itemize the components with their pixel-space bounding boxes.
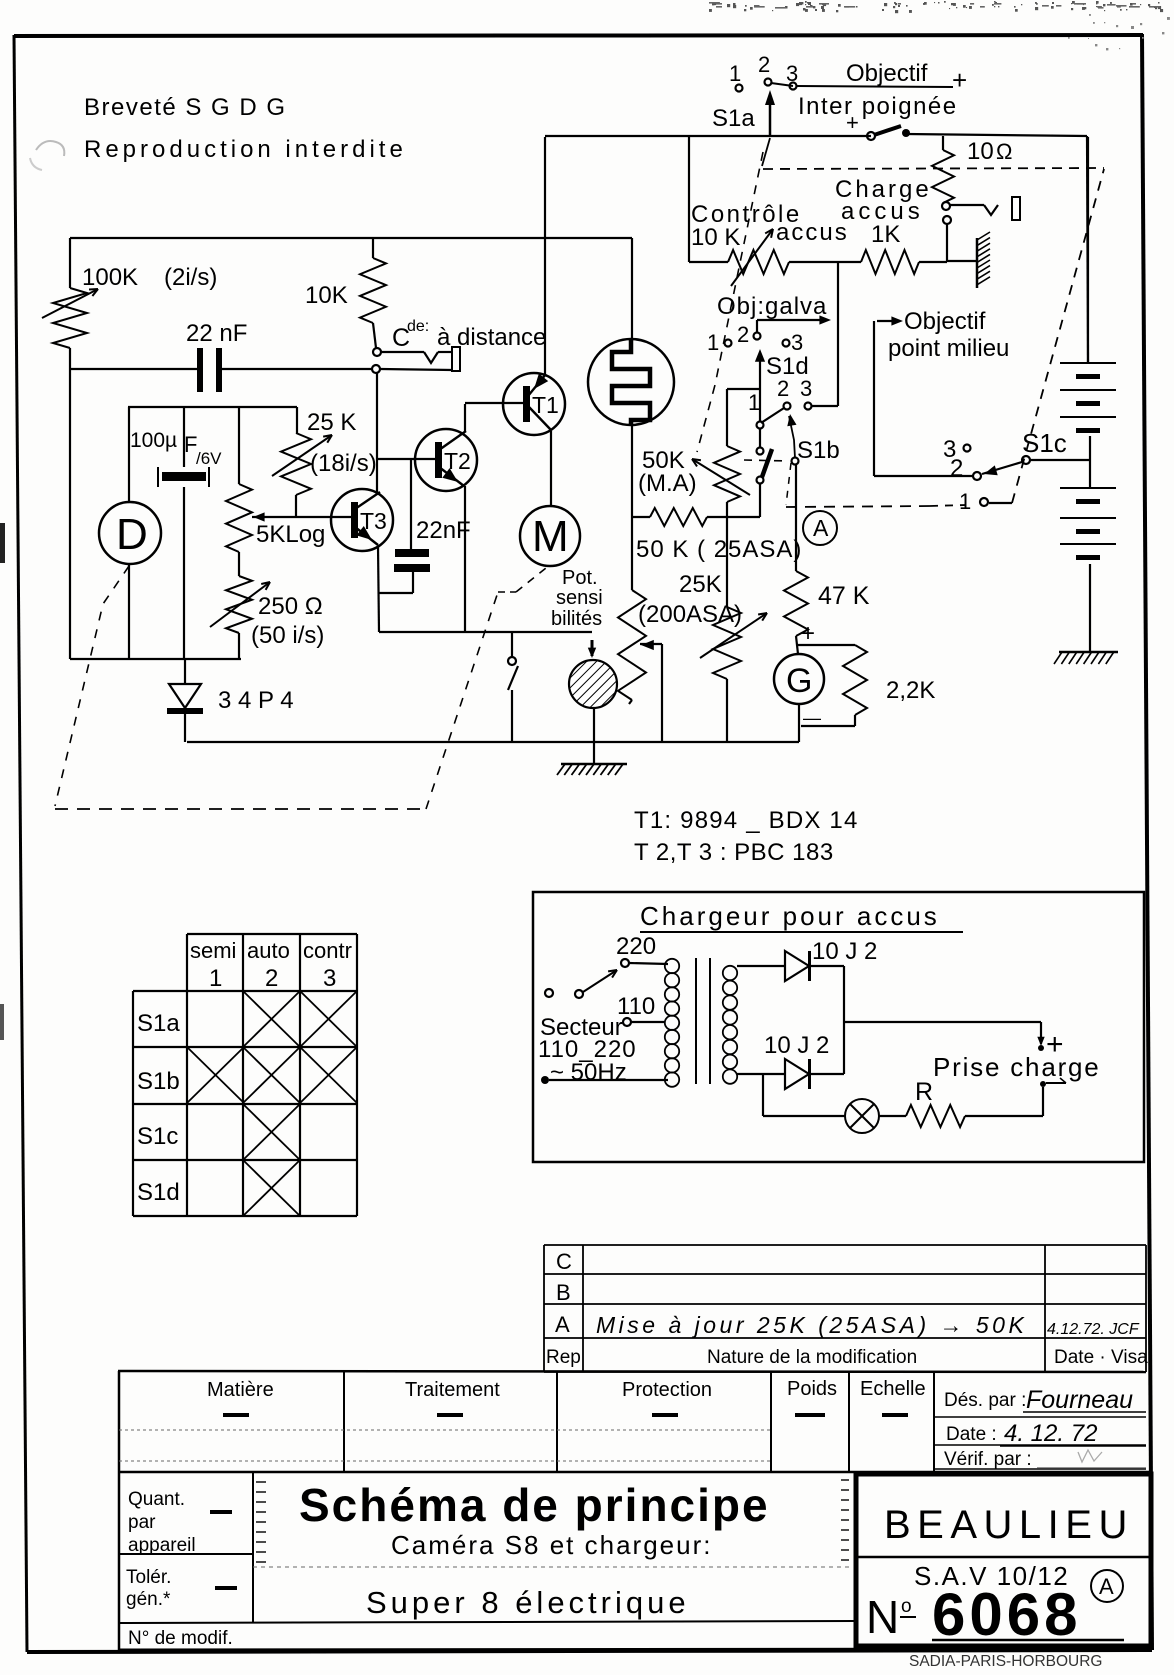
svg-text:S1c: S1c (1022, 428, 1067, 458)
svg-text:auto: auto (247, 938, 290, 963)
svg-text:3: 3 (800, 376, 812, 401)
svg-text:Poids: Poids (787, 1378, 837, 1400)
svg-text:Quant.: Quant. (128, 1489, 185, 1510)
svg-text:Caméra S8 et chargeur:: Caméra S8 et chargeur: (391, 1530, 712, 1560)
svg-text:R: R (915, 1078, 933, 1106)
svg-text:D: D (116, 510, 148, 559)
svg-text:M: M (532, 512, 569, 561)
svg-text:Fourneau: Fourneau (1026, 1386, 1133, 1414)
svg-text:10K: 10K (305, 282, 348, 309)
svg-text:+: + (952, 65, 967, 95)
svg-text:S1a: S1a (137, 1010, 180, 1037)
svg-text:(2i/s): (2i/s) (164, 264, 217, 291)
svg-text:~ 50Hz: ~ 50Hz (550, 1059, 627, 1086)
svg-text:à distance: à distance (437, 324, 546, 351)
svg-text:Echelle: Echelle (860, 1378, 926, 1400)
svg-text:Schéma de principe: Schéma de principe (299, 1479, 770, 1531)
svg-text:Chargeur pour accus: Chargeur pour accus (640, 901, 940, 931)
svg-text:B: B (556, 1280, 571, 1305)
svg-text:1: 1 (959, 489, 971, 514)
svg-text:10: 10 (967, 138, 994, 165)
svg-text:4.12.72. JCF: 4.12.72. JCF (1047, 1321, 1140, 1338)
svg-text:appareil: appareil (128, 1535, 196, 1556)
svg-text:G: G (786, 662, 812, 700)
svg-text:10 K: 10 K (691, 224, 740, 251)
svg-text:Vérif. par :: Vérif. par : (944, 1449, 1032, 1470)
svg-text:1: 1 (729, 61, 741, 86)
svg-text:Dés. par :: Dés. par : (944, 1390, 1026, 1411)
svg-text:T1: 9894 _ BDX 14: T1: 9894 _ BDX 14 (634, 807, 859, 834)
svg-text:1K: 1K (871, 221, 900, 248)
svg-text:S1c: S1c (137, 1123, 178, 1150)
svg-text:220: 220 (616, 933, 656, 960)
svg-text:Ω: Ω (996, 139, 1012, 164)
svg-text:2: 2 (777, 376, 789, 401)
svg-text:Inter poignée: Inter poignée (798, 93, 958, 120)
svg-text:(50 i/s): (50 i/s) (251, 622, 324, 649)
svg-text:(M.A): (M.A) (638, 470, 697, 497)
svg-text:/6V: /6V (196, 449, 222, 468)
svg-text:par: par (128, 1512, 156, 1533)
svg-text:semi: semi (190, 938, 236, 963)
svg-text:1: 1 (209, 965, 222, 992)
svg-text:3: 3 (323, 965, 336, 992)
svg-text:25 K: 25 K (307, 409, 356, 436)
svg-text:C: C (556, 1249, 572, 1274)
svg-text:25K: 25K (679, 571, 722, 598)
svg-text:S1b: S1b (797, 437, 840, 464)
svg-text:2: 2 (265, 965, 278, 992)
svg-text:Date · Visa: Date · Visa (1054, 1347, 1148, 1368)
svg-text:Traitement: Traitement (405, 1379, 500, 1401)
svg-text:S1d: S1d (137, 1179, 180, 1206)
svg-text:110: 110 (617, 993, 655, 1020)
svg-text:point milieu: point milieu (888, 335, 1009, 362)
svg-text:A: A (555, 1312, 570, 1337)
svg-text:Matière: Matière (207, 1379, 274, 1401)
svg-text:gén.*: gén.* (126, 1589, 171, 1610)
svg-text:10 J 2: 10 J 2 (812, 938, 877, 965)
svg-text:1: 1 (748, 390, 760, 415)
svg-text:Protection: Protection (622, 1379, 712, 1401)
svg-text:6068: 6068 (932, 1581, 1081, 1648)
svg-text:2: 2 (737, 322, 749, 347)
svg-text:Breveté S G D G: Breveté S G D G (84, 94, 287, 121)
svg-text:SADIA-PARIS-HORBOURG: SADIA-PARIS-HORBOURG (909, 1653, 1103, 1670)
svg-text:(18i/s): (18i/s) (310, 450, 377, 477)
svg-text:Prise charge: Prise charge (933, 1052, 1101, 1082)
svg-text:22 nF: 22 nF (186, 320, 247, 347)
svg-text:250 Ω: 250 Ω (258, 593, 323, 620)
svg-text:sensi: sensi (556, 587, 603, 609)
svg-text:Mise à jour 25K (25ASA) → 5: Mise à jour 25K (25ASA) → 50K (596, 1312, 1027, 1338)
svg-text:Pot.: Pot. (562, 567, 598, 589)
svg-text:2: 2 (758, 52, 770, 77)
svg-text:o: o (901, 1596, 912, 1617)
svg-text:de:: de: (407, 318, 429, 335)
svg-text:1: 1 (707, 330, 719, 355)
svg-text:47 K: 47 K (818, 582, 870, 610)
svg-text:A: A (813, 515, 829, 541)
svg-text:accus: accus (776, 219, 849, 246)
svg-text:+: + (846, 110, 859, 135)
svg-text:Nature de la modification: Nature de la modification (707, 1347, 917, 1368)
svg-text:Super 8 électrique: Super 8 électrique (366, 1585, 690, 1620)
svg-text:5KLog: 5KLog (256, 521, 325, 548)
svg-text:2,2K: 2,2K (886, 677, 935, 704)
svg-text:+: + (801, 620, 815, 647)
svg-text:Reproduction interdite: Reproduction interdite (84, 136, 407, 163)
svg-text:S1a: S1a (712, 105, 755, 132)
svg-text:T2: T2 (444, 448, 471, 474)
svg-text:N° de modif.: N° de modif. (128, 1628, 233, 1649)
svg-text:Objectif: Objectif (904, 308, 986, 335)
svg-text:4. 12. 72: 4. 12. 72 (1004, 1420, 1097, 1447)
svg-text:bilités: bilités (551, 608, 602, 630)
svg-text:3 4 P 4: 3 4 P 4 (218, 687, 294, 714)
svg-text:N: N (866, 1591, 899, 1643)
svg-text:BEAULIEU: BEAULIEU (884, 1503, 1134, 1547)
svg-text:Rep: Rep (546, 1347, 581, 1368)
svg-text:S1b: S1b (137, 1068, 180, 1095)
svg-text:2: 2 (950, 455, 963, 482)
svg-text:3: 3 (791, 330, 803, 355)
svg-text:Obj:galva: Obj:galva (717, 293, 827, 320)
svg-text:100µ: 100µ (130, 429, 177, 452)
svg-text:Date :: Date : (946, 1424, 997, 1445)
svg-text:A: A (1099, 1574, 1114, 1599)
svg-text:22nF: 22nF (416, 517, 471, 544)
svg-text:50 K ( 25ASA): 50 K ( 25ASA) (636, 536, 802, 563)
svg-text:100K: 100K (82, 264, 138, 291)
svg-text:10 J 2: 10 J 2 (764, 1032, 829, 1059)
svg-text:Tolér.: Tolér. (126, 1567, 171, 1588)
svg-text:T 2,T 3 : PBC 183: T 2,T 3 : PBC 183 (634, 839, 834, 866)
svg-text:Objectif: Objectif (846, 60, 928, 87)
svg-text:contr: contr (303, 938, 352, 963)
